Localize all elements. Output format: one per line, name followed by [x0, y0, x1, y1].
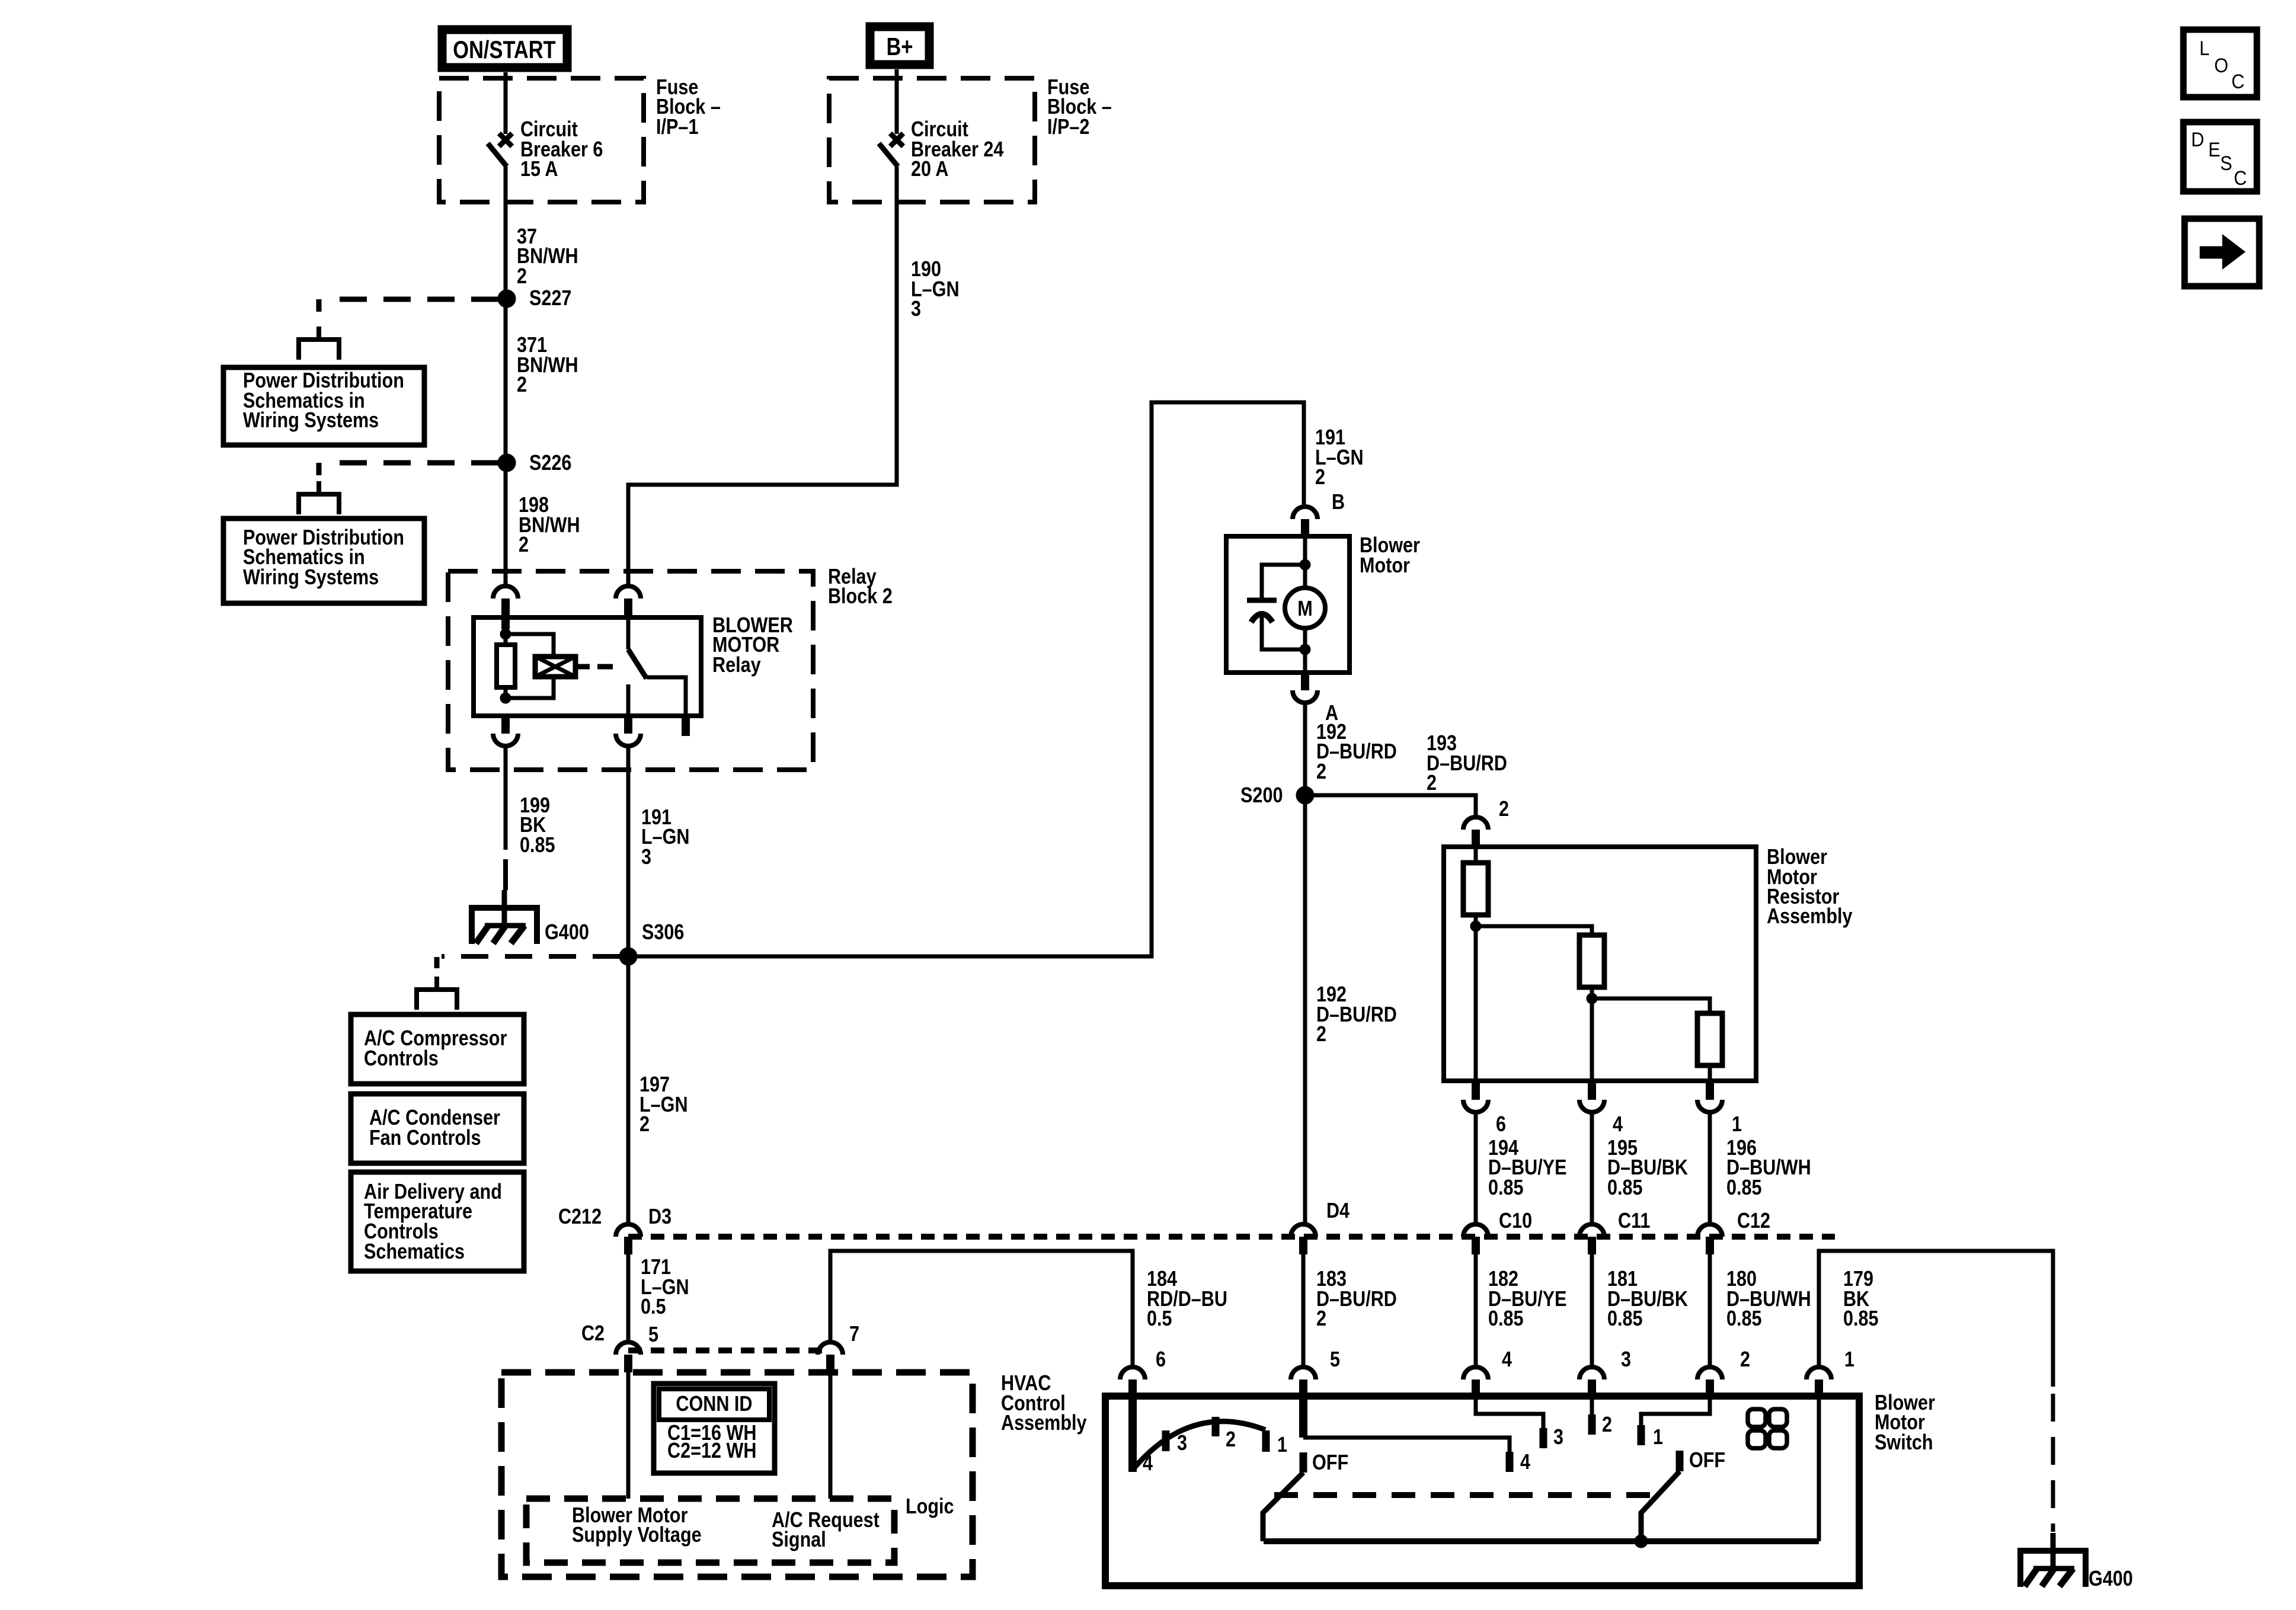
CONN ID table	[654, 1384, 775, 1473]
svg-text:O: O	[2214, 55, 2228, 77]
fuse block I/P-1 dashed box	[439, 78, 644, 202]
wire 171 L-GN C212 to HVAC C2	[626, 1254, 631, 1341]
blower motor resistor assembly outline box	[1444, 847, 1756, 1081]
motor capacitor junction top	[1300, 559, 1310, 570]
circuit breaker CB24	[879, 133, 903, 167]
svg-text:RelayBlock 2: RelayBlock 2	[828, 565, 893, 609]
resistor element 3	[1697, 1013, 1722, 1065]
svg-text:OFF: OFF	[1312, 1451, 1348, 1475]
switch pin 1 internal lead	[1817, 1397, 1821, 1541]
icon box forward arrow	[2185, 219, 2259, 286]
relay terminal connector bottom-right	[616, 716, 641, 746]
relay terminal connector bottom-left	[493, 716, 518, 746]
switch pin 4 internal lead	[1476, 1397, 1543, 1428]
svg-text:A/C CompressorControls: A/C CompressorControls	[364, 1027, 507, 1071]
svg-text:179BK0.85: 179BK0.85	[1843, 1267, 1879, 1331]
connector pin 1 of resistor assembly	[1697, 1082, 1722, 1112]
switch pin 6 internal lead	[1128, 1394, 1137, 1472]
svg-text:6: 6	[1496, 1113, 1506, 1137]
connector C11	[1579, 1224, 1604, 1254]
pole contact 3	[1540, 1428, 1547, 1448]
wire 190 L-GN from CB24 to relay block	[628, 167, 897, 585]
svg-text:6: 6	[1156, 1348, 1166, 1372]
relay resistor top lead	[504, 636, 508, 645]
wire 198 BN/WH segment	[504, 472, 508, 585]
power feed box B+	[870, 27, 929, 65]
svg-text:CircuitBreaker 2420 A: CircuitBreaker 2420 A	[911, 118, 1004, 181]
svg-text:7: 7	[849, 1323, 859, 1346]
reference box A/C Compressor Controls	[351, 1014, 524, 1084]
svg-text:C: C	[2231, 71, 2244, 93]
resistor element 1	[1463, 863, 1488, 915]
svg-text:196D–BU/WH0.85: 196D–BU/WH0.85	[1726, 1137, 1811, 1200]
pole 1 contact 4	[1506, 1452, 1514, 1472]
relay switch common lead	[626, 616, 631, 649]
wire 371 BN/WH segment	[504, 307, 508, 454]
resistor junction 1	[1470, 921, 1481, 932]
dashed wire to ground G400 right	[2051, 1394, 2055, 1532]
svg-text:B: B	[1332, 491, 1345, 514]
motor symbol M circle	[1285, 588, 1325, 628]
resistor 1 bottom lead	[1474, 915, 1478, 923]
svg-text:197L–GN2: 197L–GN2	[639, 1073, 688, 1137]
relay coil branch wiring	[506, 634, 554, 657]
HVAC control assembly dashed box	[501, 1372, 973, 1577]
switch pin 3 internal lead	[1590, 1397, 1594, 1414]
off-page branch symbol to Power Distribution 2	[299, 481, 339, 514]
rotary position tick 1	[1262, 1430, 1270, 1452]
svg-text:190L–GN3: 190L–GN3	[911, 258, 960, 321]
connector pin 4 of blower motor switch	[1463, 1367, 1488, 1397]
fan icon	[1748, 1409, 1787, 1448]
switch pin 2 internal lead	[1641, 1397, 1710, 1425]
connector C212 harness dotted line	[628, 1234, 1835, 1240]
svg-text:194D–BU/YE0.85: 194D–BU/YE0.85	[1488, 1137, 1567, 1200]
off-page branch symbol to A/C Compressor Controls	[417, 977, 457, 1010]
svg-text:A/C RequestSignal: A/C RequestSignal	[772, 1509, 880, 1552]
relay coil winding symbol	[535, 657, 575, 677]
svg-text:3: 3	[1553, 1426, 1563, 1449]
connector pin 3 of blower motor switch	[1579, 1367, 1604, 1397]
switch bus junction	[1635, 1535, 1648, 1548]
svg-text:C11: C11	[1618, 1209, 1650, 1233]
connector C2 pin 5 of HVAC	[616, 1342, 641, 1372]
capacitor branch top lead	[1262, 565, 1305, 600]
svg-text:5: 5	[1330, 1348, 1340, 1372]
svg-text:D4: D4	[1326, 1199, 1350, 1223]
pole 2 switch blade	[1641, 1471, 1680, 1541]
wire 197 L-GN S306 to C212	[626, 965, 631, 1223]
svg-text:2: 2	[1226, 1428, 1236, 1452]
wire 183 D-BU/RD D4 to switch pin 5	[1302, 1254, 1306, 1366]
connector pin 4 of resistor assembly	[1579, 1082, 1604, 1112]
dashed branch wire from S226	[323, 460, 498, 466]
svg-text:3: 3	[1177, 1432, 1187, 1455]
svg-text:BLOWERMOTORRelay: BLOWERMOTORRelay	[712, 614, 793, 677]
svg-text:198BN/WH2: 198BN/WH2	[519, 494, 580, 557]
svg-text:OFF: OFF	[1689, 1449, 1725, 1473]
svg-text:BlowerMotorResistorAssembly: BlowerMotorResistorAssembly	[1767, 846, 1853, 929]
HVAC internal wire from C2 pin 5	[626, 1372, 631, 1499]
relay switch upper contact path	[647, 677, 686, 716]
resistor junction 2	[1587, 993, 1597, 1004]
wire 194 D-BU/YE	[1474, 1113, 1478, 1223]
switch mechanical dashed link	[1274, 1492, 1659, 1498]
motor suppression capacitor	[1247, 600, 1277, 622]
svg-text:183D–BU/RD2: 183D–BU/RD2	[1316, 1267, 1397, 1331]
svg-text:S226: S226	[529, 452, 571, 475]
svg-text:L: L	[2199, 37, 2209, 60]
svg-text:181D–BU/BK0.85: 181D–BU/BK0.85	[1607, 1267, 1688, 1331]
svg-text:G400: G400	[545, 921, 589, 945]
svg-text:191L–GN2: 191L–GN2	[1315, 426, 1364, 489]
wire 179 BK switch pin 1 to ground	[1819, 1251, 2053, 1387]
resistor 3 bottom lead	[1708, 1065, 1712, 1081]
motor capacitor junction bottom	[1300, 644, 1310, 655]
relay terminal connector top-left	[493, 586, 518, 616]
splice S306	[619, 948, 637, 965]
svg-text:4: 4	[1613, 1113, 1623, 1137]
relay block 2 dashed box	[448, 571, 813, 770]
connector C212 terminal D4	[1291, 1224, 1316, 1254]
pole 2 contact OFF	[1676, 1451, 1684, 1471]
dashed wire to ground G400	[503, 859, 508, 890]
dashed corner to branch symbol	[316, 299, 322, 312]
svg-text:195D–BU/BK0.85: 195D–BU/BK0.85	[1607, 1137, 1688, 1200]
connector C2 pin 7 of HVAC	[818, 1342, 843, 1372]
svg-text:Power DistributionSchematics i: Power DistributionSchematics inWiring Sy…	[243, 369, 404, 433]
relay resistor bottom lead	[504, 687, 508, 696]
svg-text:M: M	[1297, 597, 1312, 621]
fuse block I/P-2 dashed box	[829, 78, 1035, 202]
svg-text:4: 4	[1143, 1452, 1153, 1475]
relay switch output contact lead	[626, 684, 631, 716]
connector pin 2 of resistor assembly	[1463, 817, 1488, 847]
relay unused terminal stub	[682, 716, 690, 736]
ground G400 left	[472, 890, 537, 944]
svg-text:171L–GN0.5: 171L–GN0.5	[641, 1256, 689, 1319]
connector C10	[1463, 1224, 1488, 1254]
ground G400 right	[2020, 1533, 2086, 1587]
relay terminal connector top-right	[616, 586, 641, 616]
wire 37 BN/WH segment	[504, 167, 508, 290]
resistor 1 top lead	[1474, 846, 1478, 863]
svg-text:Air Delivery andTemperatureCon: Air Delivery andTemperatureControlsSchem…	[364, 1180, 502, 1264]
svg-text:E: E	[2208, 139, 2220, 161]
svg-text:5: 5	[648, 1323, 658, 1347]
off-page branch symbol to Power Distribution 1	[299, 327, 339, 360]
capacitor branch bottom lead	[1262, 614, 1305, 649]
switch rotary wiper arc	[1134, 1422, 1265, 1468]
svg-text:1: 1	[1732, 1113, 1742, 1137]
wire from ON/START to Circuit Breaker 6	[504, 72, 508, 134]
svg-text:184RD/D–BU0.5: 184RD/D–BU0.5	[1147, 1267, 1227, 1331]
svg-text:2: 2	[1602, 1413, 1612, 1437]
svg-text:D3: D3	[648, 1205, 671, 1229]
reference box A/C Condenser Fan Controls	[351, 1094, 524, 1163]
wire 184 RD/D-BU from HVAC pin 7 to switch pin 6	[830, 1251, 1133, 1366]
reference box Air Delivery and Temperature Controls Schematics	[351, 1172, 524, 1271]
wire S306 up to blower motor feed	[637, 402, 1304, 956]
blower motor internal feed wire	[1303, 536, 1307, 589]
svg-text:D: D	[2191, 129, 2204, 151]
resistor output wire med speed	[1590, 998, 1594, 1081]
svg-text:193D–BU/RD2: 193D–BU/RD2	[1427, 732, 1507, 795]
circuit breaker CB6	[488, 133, 512, 167]
svg-text:BlowerMotor: BlowerMotor	[1360, 534, 1420, 578]
pole contact 2	[1588, 1414, 1596, 1435]
resistor output wire low speed	[1474, 926, 1478, 1081]
svg-text:CircuitBreaker 615 A: CircuitBreaker 615 A	[520, 118, 603, 181]
reference box Power Distribution Schematics 1	[223, 367, 424, 445]
splice S200	[1296, 786, 1314, 804]
svg-text:1: 1	[1277, 1433, 1287, 1457]
relay coil to armature solid link	[575, 664, 590, 670]
wire 191 L-GN 3 from relay to S306	[626, 747, 631, 956]
svg-text:C10: C10	[1499, 1209, 1532, 1233]
svg-text:FuseBlock –I/P–1: FuseBlock –I/P–1	[656, 76, 721, 139]
svg-text:C2: C2	[581, 1322, 605, 1346]
wire 181 D-BU/BK C11 to switch pin 3	[1590, 1254, 1594, 1366]
blower motor switch outline box	[1105, 1396, 1859, 1586]
wire 196 D-BU/WH	[1708, 1113, 1712, 1223]
resistor 2 bottom lead	[1590, 987, 1594, 995]
wire 199 BK from relay	[504, 747, 508, 850]
wire 195 D-BU/BK	[1590, 1113, 1594, 1223]
svg-text:Logic: Logic	[906, 1495, 954, 1519]
icon box LOC	[2183, 30, 2257, 97]
blower motor outline box	[1226, 536, 1350, 673]
svg-text:3: 3	[1621, 1348, 1631, 1372]
svg-text:180D–BU/WH0.85: 180D–BU/WH0.85	[1726, 1267, 1811, 1331]
blower motor internal return wire	[1303, 628, 1307, 673]
svg-text:HVACControlAssembly: HVACControlAssembly	[1001, 1372, 1087, 1435]
pole 1 contact OFF	[1300, 1452, 1307, 1473]
dashed wire S306 to A/C branch	[442, 954, 620, 959]
svg-text:A/C CondenserFan Controls: A/C CondenserFan Controls	[369, 1106, 500, 1150]
svg-text:4: 4	[1502, 1348, 1512, 1372]
HVAC internal wire from pin 7	[829, 1372, 833, 1499]
relay switch blade	[628, 649, 647, 678]
svg-text:371BN/WH2: 371BN/WH2	[517, 334, 578, 397]
svg-text:S200: S200	[1240, 784, 1283, 808]
relay internal junction top	[500, 629, 511, 639]
connector pin 5 of blower motor switch	[1291, 1367, 1316, 1397]
reference box Power Distribution Schematics 2	[223, 518, 424, 603]
svg-text:192D–BU/RD2: 192D–BU/RD2	[1316, 983, 1397, 1046]
connector C2 dotted line	[628, 1347, 830, 1353]
connector terminal A of blower motor	[1293, 673, 1318, 703]
svg-text:4: 4	[1520, 1451, 1530, 1474]
wire 180 D-BU/WH C12 to switch pin 2	[1708, 1254, 1712, 1366]
switch pin 5 internal stub	[1299, 1394, 1307, 1438]
splice S227	[498, 290, 516, 308]
svg-text:C12: C12	[1737, 1209, 1770, 1233]
svg-text:1: 1	[1844, 1348, 1854, 1372]
svg-text:Blower MotorSupply Voltage: Blower MotorSupply Voltage	[572, 1504, 702, 1547]
icon box DESC	[2183, 122, 2257, 191]
svg-text:BlowerMotorSwitch: BlowerMotorSwitch	[1875, 1391, 1935, 1455]
blower motor relay outline box	[474, 617, 701, 716]
svg-text:FuseBlock –I/P–2: FuseBlock –I/P–2	[1047, 76, 1112, 139]
switch common bus	[1264, 1538, 1819, 1544]
connector C12	[1697, 1224, 1722, 1254]
svg-text:192D–BU/RD2: 192D–BU/RD2	[1316, 721, 1397, 784]
connector C212 terminal D3	[616, 1224, 641, 1254]
power feed box ON/START	[442, 30, 567, 68]
svg-text:2: 2	[1499, 798, 1509, 821]
resistor element 2	[1579, 935, 1604, 987]
wire from B+ to Circuit Breaker 24	[895, 69, 899, 134]
connector terminal B of blower motor	[1293, 507, 1318, 537]
pole contact 1	[1638, 1425, 1645, 1445]
svg-text:Power DistributionSchematics i: Power DistributionSchematics inWiring Sy…	[243, 526, 404, 590]
HVAC logic dashed box	[526, 1499, 894, 1563]
svg-text:C: C	[2234, 167, 2247, 190]
connector pin 6 of blower motor switch	[1120, 1367, 1145, 1397]
pole 1 switch blade	[1263, 1473, 1303, 1541]
svg-text:C212: C212	[558, 1205, 602, 1229]
relay internal junction bottom	[500, 693, 511, 703]
dashed corner at A/C branch	[434, 957, 440, 968]
wire 192 D-BU/RD motor to S200	[1303, 703, 1307, 795]
svg-text:37BN/WH2: 37BN/WH2	[517, 225, 578, 289]
svg-text:ON/START: ON/START	[453, 36, 556, 64]
svg-text:182D–BU/YE0.85: 182D–BU/YE0.85	[1488, 1267, 1567, 1331]
svg-text:1: 1	[1653, 1426, 1663, 1449]
relay coil branch return wiring	[506, 677, 554, 698]
svg-text:S306: S306	[642, 921, 684, 945]
link to resistor 2	[1476, 926, 1592, 935]
dashed corner to branch symbol 2	[316, 463, 322, 475]
wire 193 D-BU/RD to resistor assembly	[1305, 795, 1476, 816]
svg-text:CONN ID: CONN ID	[676, 1393, 752, 1416]
svg-text:199BK0.85: 199BK0.85	[520, 794, 555, 857]
link to resistor 3	[1592, 998, 1710, 1013]
svg-text:C2=12 WH: C2=12 WH	[667, 1439, 756, 1463]
svg-text:191L–GN3: 191L–GN3	[641, 806, 690, 869]
wire 182 D-BU/YE C10 to switch pin 4	[1474, 1254, 1478, 1366]
connector pin 6 of resistor assembly	[1463, 1082, 1488, 1112]
connector pin 1 of blower motor switch	[1806, 1367, 1831, 1397]
dashed branch wire from S227	[323, 297, 498, 302]
relay coil feed stub	[501, 616, 510, 629]
splice S226	[498, 454, 516, 472]
wire 192 D-BU/RD S200 to D4	[1303, 795, 1307, 1223]
svg-text:S227: S227	[529, 287, 571, 311]
rotary position tick 3	[1162, 1430, 1170, 1451]
svg-text:2: 2	[1740, 1348, 1750, 1372]
svg-text:G400: G400	[2089, 1567, 2133, 1591]
svg-text:S: S	[2220, 152, 2232, 175]
rotary position tick 2	[1212, 1417, 1220, 1436]
switch pin 5 internal lead	[1303, 1438, 1510, 1453]
relay coil suppression resistor	[497, 645, 515, 687]
svg-text:B+: B+	[886, 33, 913, 61]
relay mechanical dashed link	[597, 664, 621, 670]
connector pin 2 of blower motor switch	[1697, 1367, 1722, 1397]
